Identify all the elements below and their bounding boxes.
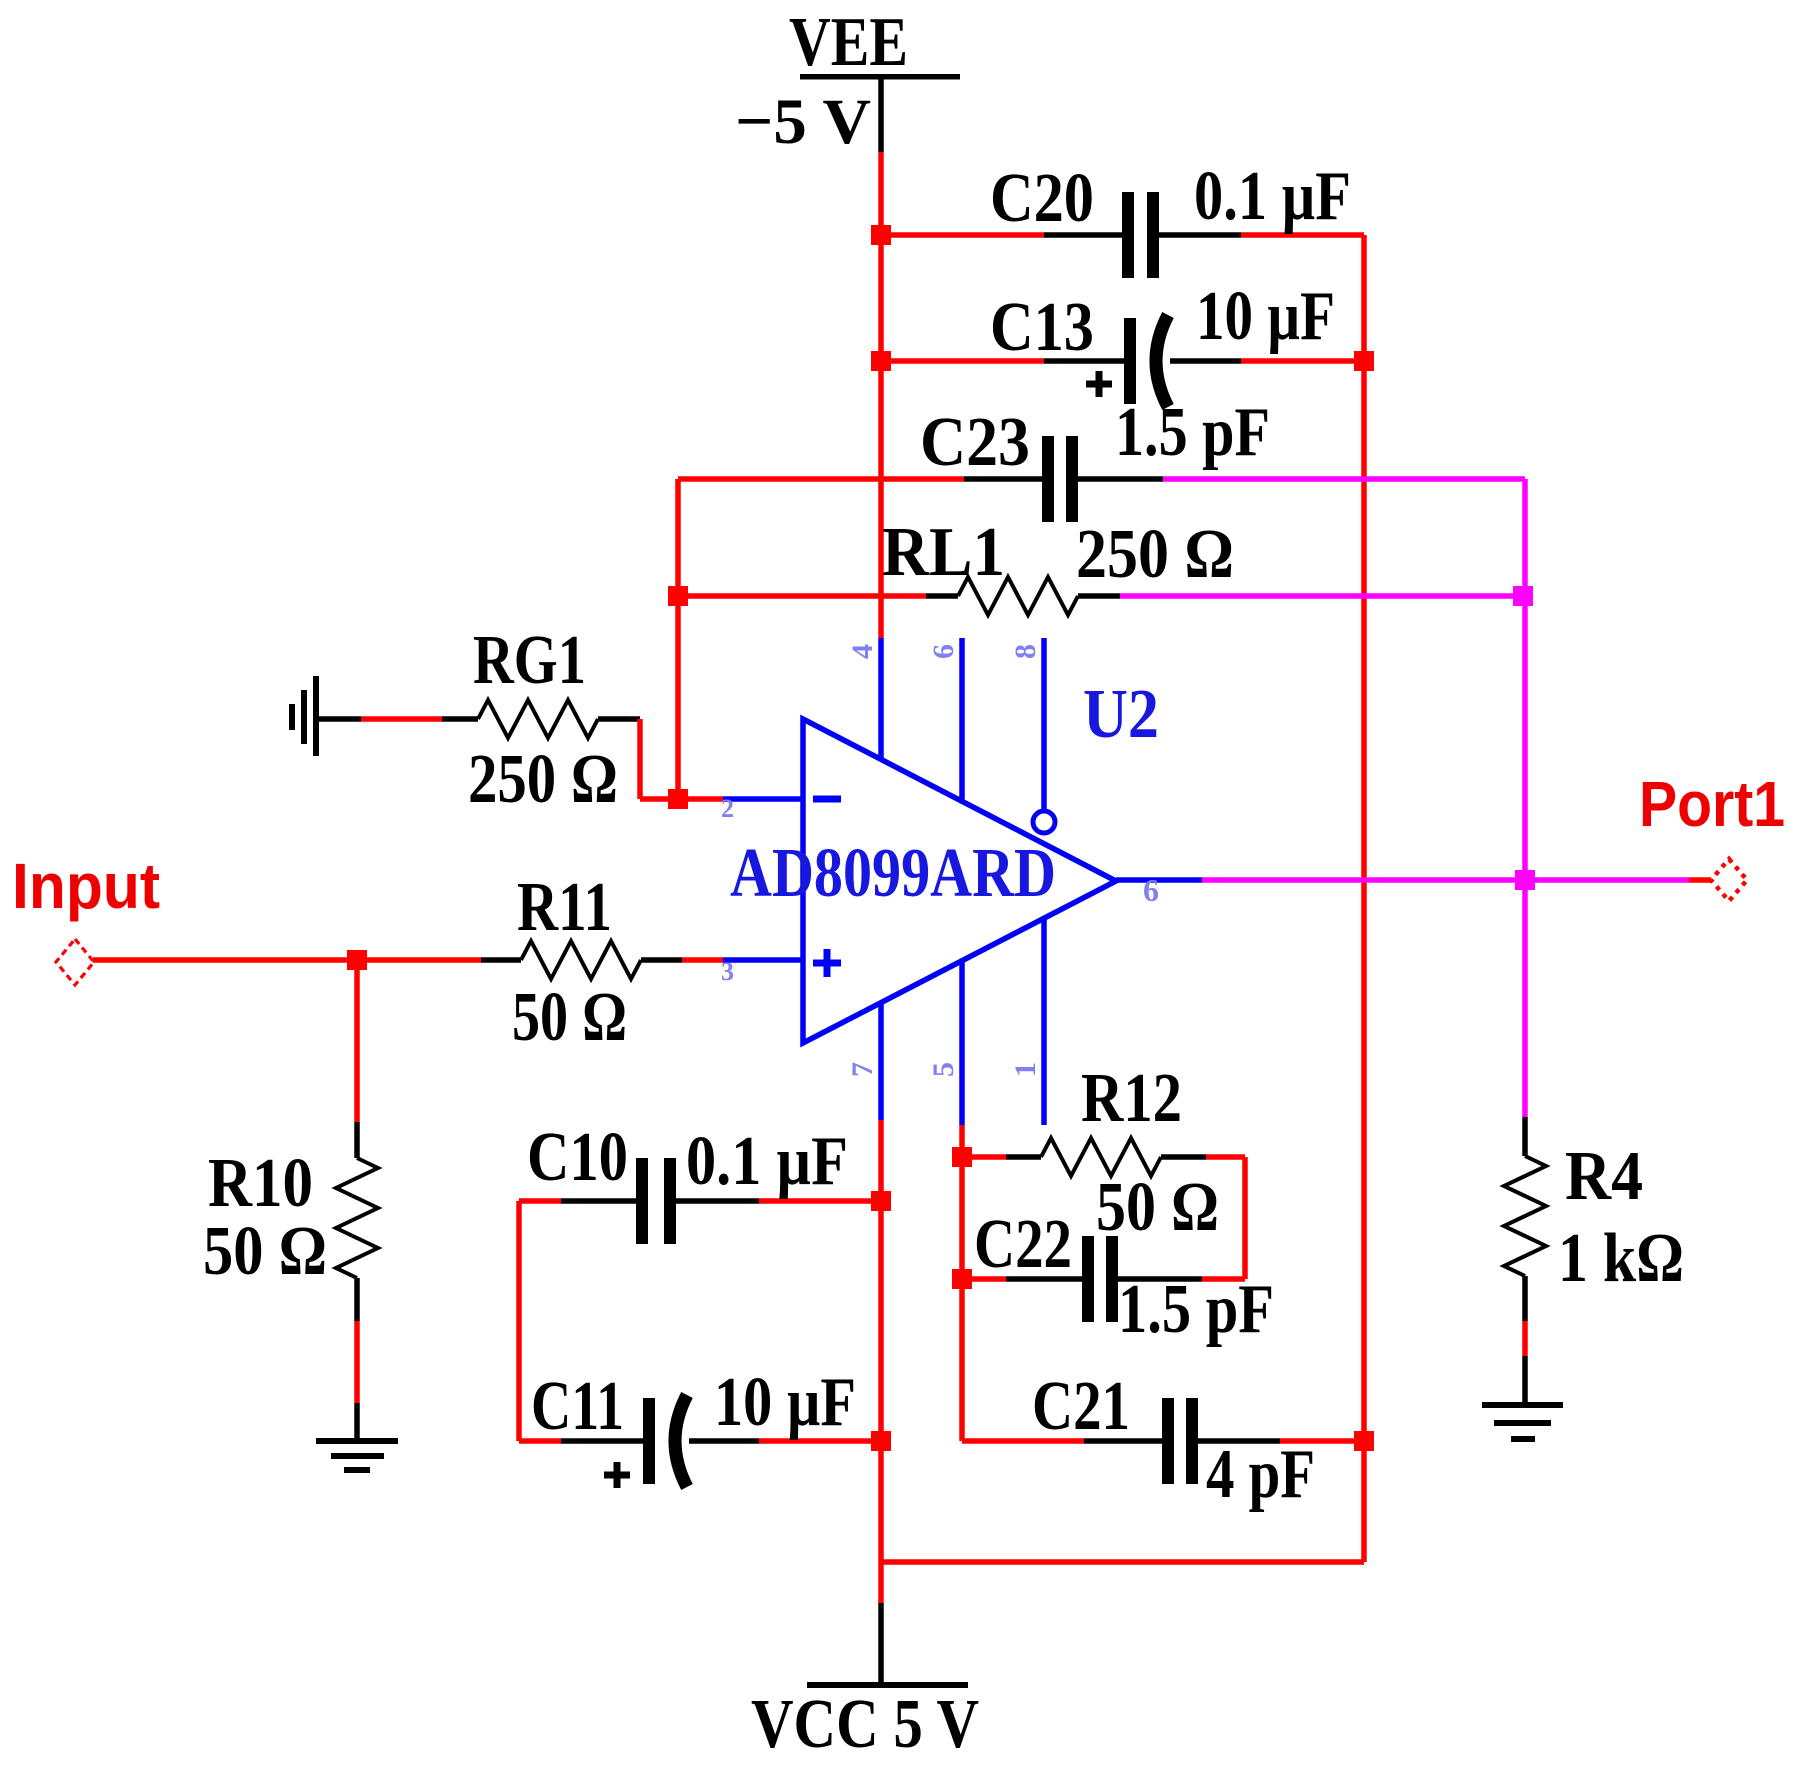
- svg-text:250 Ω: 250 Ω: [468, 741, 618, 818]
- svg-text:7: 7: [846, 1062, 879, 1077]
- svg-text:C22: C22: [974, 1206, 1072, 1283]
- svg-text:10 µF: 10 µF: [1196, 278, 1335, 355]
- svg-text:4: 4: [846, 644, 879, 659]
- svg-text:10 µF: 10 µF: [714, 1364, 856, 1441]
- svg-text:5: 5: [927, 1062, 960, 1077]
- svg-text:1: 1: [1009, 1062, 1042, 1077]
- svg-text:RL1: RL1: [882, 514, 1005, 591]
- svg-text:6: 6: [1143, 872, 1159, 908]
- svg-text:0.1 µF: 0.1 µF: [686, 1123, 848, 1200]
- svg-text:8: 8: [1009, 644, 1042, 659]
- svg-text:1.5 pF: 1.5 pF: [1118, 1271, 1274, 1348]
- svg-text:C23: C23: [920, 404, 1030, 481]
- svg-text:250 Ω: 250 Ω: [1076, 516, 1234, 593]
- svg-text:C20: C20: [990, 160, 1094, 237]
- svg-text:R12: R12: [1081, 1060, 1182, 1137]
- svg-text:U2: U2: [1083, 676, 1159, 753]
- svg-text:1.5 pF: 1.5 pF: [1115, 394, 1270, 471]
- svg-text:C21: C21: [1032, 1368, 1130, 1445]
- svg-text:1 kΩ: 1 kΩ: [1558, 1220, 1684, 1297]
- svg-text:6: 6: [927, 644, 960, 659]
- svg-text:3: 3: [721, 957, 734, 986]
- svg-text:C11: C11: [531, 1368, 624, 1445]
- svg-text:0.1 µF: 0.1 µF: [1194, 158, 1351, 235]
- svg-text:VEE: VEE: [789, 4, 908, 81]
- svg-text:AD8099ARD: AD8099ARD: [730, 835, 1056, 912]
- svg-text:2: 2: [721, 794, 734, 823]
- svg-text:50 Ω: 50 Ω: [512, 979, 627, 1056]
- svg-text:C10: C10: [527, 1119, 628, 1196]
- svg-text:Port1: Port1: [1639, 768, 1785, 840]
- svg-text:R10: R10: [208, 1145, 313, 1222]
- svg-text:50 Ω: 50 Ω: [1096, 1169, 1219, 1246]
- svg-text:VCC 5 V: VCC 5 V: [751, 1686, 979, 1763]
- svg-text:R4: R4: [1565, 1138, 1643, 1215]
- svg-text:−5 V: −5 V: [735, 86, 871, 158]
- svg-text:R11: R11: [517, 869, 612, 946]
- svg-text:RG1: RG1: [473, 622, 586, 699]
- svg-text:50 Ω: 50 Ω: [203, 1213, 327, 1290]
- svg-text:4 pF: 4 pF: [1206, 1436, 1315, 1513]
- svg-text:C13: C13: [990, 289, 1094, 366]
- svg-text:Input: Input: [12, 850, 160, 922]
